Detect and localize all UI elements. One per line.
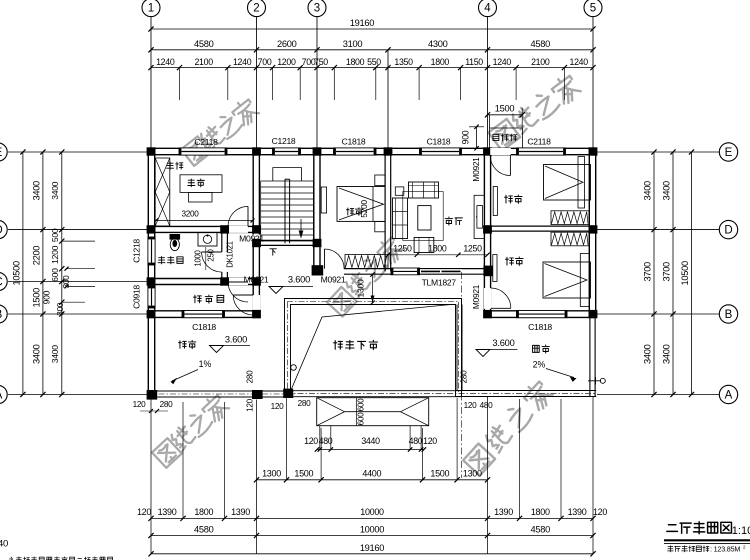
watermark A [180,97,260,168]
bathroom label [158,256,165,263]
bottom dim row 120 1390 1800 1390 10000 mirrored [151,517,593,519]
svg-text:1150: 1150 [465,57,483,67]
column courtyard SW [283,389,293,398]
svg-text:5200: 5200 [359,200,369,218]
svg-text:3.600: 3.600 [492,338,514,348]
svg-text:M0921: M0921 [239,234,264,244]
window C2118 study top [179,148,227,155]
nightstand bedroom2 south [375,222,385,232]
bottom left note (cut) [9,557,14,560]
canopy label [493,134,499,140]
bottom dim row 19160 [151,553,593,555]
right dimension 10500 [691,152,693,395]
terrace label [533,345,540,352]
desk study [180,175,222,193]
svg-text:3400: 3400 [662,344,672,364]
left dimension chain 3400 2200 1500 3400 [42,152,44,395]
svg-text:3700: 3700 [643,262,653,282]
svg-text:3400: 3400 [50,345,60,363]
svg-text:500: 500 [50,228,60,242]
stair void railing [273,168,302,181]
exterior wall left [147,148,149,397]
svg-text:DK1021: DK1021 [226,241,235,267]
svg-text:4580: 4580 [531,524,551,534]
svg-text:1200: 1200 [50,245,60,263]
svg-text:C2118: C2118 [194,137,218,147]
svg-text:3.600: 3.600 [225,335,247,345]
rug living room [403,192,443,241]
tv cabinet [474,195,484,238]
svg-text:M0921: M0921 [244,275,269,285]
title second floor plan [667,525,678,532]
svg-text:1300: 1300 [463,468,482,478]
svg-text:1200: 1200 [277,57,296,67]
svg-text:4400: 4400 [362,468,381,478]
door M0921 entry under canopy [490,148,511,155]
svg-text:: 123.85M: : 123.85M [710,545,740,554]
svg-text:3100: 3100 [343,39,363,49]
svg-text:4300: 4300 [428,39,448,49]
tv set [477,206,483,229]
stair center rail [284,179,286,243]
svg-text:B: B [725,309,733,321]
wall B right wing [484,310,596,312]
axis row lines right [597,151,720,153]
stair treads [261,180,314,182]
left dimension chain 10500 [22,152,24,395]
door M0921 study [247,206,249,226]
svg-text:1800: 1800 [194,507,213,517]
wall axis3 [313,148,315,270]
svg-text:1390: 1390 [494,507,513,517]
svg-text:1500: 1500 [32,288,42,308]
storage label [194,295,202,303]
terrace parapet right [589,318,591,397]
courtyard outer wall [285,299,462,397]
svg-text:3.600: 3.600 [288,275,310,285]
svg-text:300: 300 [56,302,65,316]
svg-text:1240: 1240 [233,57,252,67]
wall axis2 [252,148,254,317]
grid bubbles right E D B A [719,143,737,161]
right dimension chain 3400 3700 3400 col1 [653,152,655,395]
grid bubbles top 1-5 [142,0,160,17]
svg-text:19160: 19160 [360,543,384,553]
bedroom2 label vertical [346,208,353,215]
axis line 3a top [387,50,389,148]
closet by stair [321,187,326,213]
svg-text:19160: 19160 [350,18,374,28]
column axis3 south [312,265,324,275]
corner table [395,187,404,195]
chair study [189,192,213,202]
svg-text:1500: 1500 [495,104,515,114]
courtyard centerlines [287,302,289,394]
svg-text:C2118: C2118 [527,137,551,147]
svg-text:600: 600 [357,412,366,426]
svg-text:1800: 1800 [531,507,550,517]
wall axis3a [384,148,386,271]
wall C left wing [148,278,260,280]
svg-text:3400: 3400 [662,181,672,201]
svg-text:TLM1827: TLM1827 [422,278,457,288]
exterior wall top [148,147,596,149]
svg-text:280: 280 [246,370,255,384]
terrace left wall [456,305,458,391]
svg-text:4580: 4580 [194,39,214,49]
wall D left wing [148,225,260,227]
courtyard bottom wall [285,390,462,392]
svg-text:1250: 1250 [463,244,482,254]
wall D right wing [484,225,596,227]
watermark C [326,235,405,318]
svg-text:1250: 1250 [393,244,412,254]
toilet [170,238,179,250]
svg-text:3200: 3200 [181,210,199,219]
column pavilion axis2 [252,390,263,399]
door DK1021 bathroom [202,251,222,253]
door M0921 pavilion [233,294,253,296]
svg-text:3400: 3400 [643,344,653,364]
svg-text:700: 700 [258,57,272,67]
dimension total 19160 top [151,28,593,30]
window C1818 storage [182,311,225,318]
left connector stubs [62,240,95,242]
svg-text:E: E [0,147,3,159]
svg-text:B: B [0,309,3,321]
svg-text:C1818: C1818 [427,137,451,147]
svg-text:4: 4 [484,3,491,15]
svg-text:1240: 1240 [156,57,175,67]
pavilion bottom wall [148,390,294,392]
svg-text:1800: 1800 [346,57,365,67]
svg-text:480: 480 [480,401,494,410]
svg-text:1390: 1390 [568,507,587,517]
svg-text:2600: 2600 [277,39,297,49]
stair direction arrow [300,219,302,238]
wall axis4 [483,148,485,317]
wardrobe bedroom4 [551,232,589,246]
dimension 1500 canopy [488,114,523,116]
axis extension lines top [150,17,152,148]
svg-text:E: E [725,147,733,159]
svg-text:120: 120 [304,436,318,446]
svg-text:1300: 1300 [262,468,281,478]
svg-text:1240: 1240 [493,57,512,67]
svg-text:C1818: C1818 [192,322,216,332]
svg-text:120: 120 [133,400,147,409]
courtyard dim row 1300 1500 4400 1500 1300 [257,479,488,481]
svg-text:1:10: 1:10 [732,525,750,537]
columns grid [147,147,156,155]
bed bedroom2 [337,187,385,222]
svg-text:3: 3 [314,3,320,15]
svg-text:900: 900 [461,130,471,144]
svg-text:2%: 2% [533,360,546,370]
svg-text:120: 120 [593,507,607,517]
window C1818 bedroom4 [517,311,568,318]
svg-text:120: 120 [464,401,478,410]
level 3.600 pavilion [210,346,224,353]
coffee table [418,206,431,230]
nightstand bedroom2 north [375,175,385,186]
window TLM left segment [391,268,420,270]
axis row lines left [8,151,148,153]
wardrobe bedroom3 [551,211,589,225]
door storage [228,281,248,283]
svg-text:40: 40 [0,539,8,550]
svg-text:D: D [724,225,732,237]
svg-text:2200: 2200 [32,246,42,266]
svg-text:1390: 1390 [231,507,250,517]
terrace drain [588,380,601,382]
svg-text:550: 550 [367,57,381,67]
bed bedroom4 [543,262,591,298]
svg-text:C1818: C1818 [528,322,552,332]
svg-text:1390: 1390 [158,507,177,517]
dim 1300 vertical at courtyard [372,275,374,303]
sliding door TLM1827 [420,268,463,270]
svg-text:2: 2 [253,3,259,15]
porch dim 600 600 [356,398,358,426]
cabinet bedroom3 wall [493,187,497,216]
svg-text:280: 280 [298,399,312,408]
svg-text:M0921: M0921 [471,157,481,182]
svg-text:280: 280 [460,370,469,384]
extension drops below top dims [179,68,181,100]
porch dim row 120 480 3440 480 120 [317,449,424,451]
exterior wall right [588,148,590,317]
pavilion label [179,341,187,349]
bookcase label [167,162,174,169]
window C2118 bedroom3 top [517,148,566,155]
svg-text:1: 1 [148,3,154,15]
svg-text:480: 480 [409,436,423,446]
canopy slab [490,115,523,148]
right dimension chain col2 [672,152,674,395]
svg-text:M0921: M0921 [471,284,481,309]
svg-text:3700: 3700 [662,262,672,282]
svg-text:120: 120 [137,507,151,517]
svg-text:C1218: C1218 [132,239,142,263]
level 3.600 terrace [476,350,490,357]
svg-text:C0918: C0918 [132,285,142,309]
left dimension chain detail [61,152,63,395]
window C1818 living top [420,148,462,155]
svg-text:10500: 10500 [680,261,690,285]
window C1818 bedroom2 top [334,148,377,155]
courtyard void label [334,341,343,350]
svg-text:3440: 3440 [361,436,380,446]
svg-text:C1218: C1218 [272,136,296,146]
washbasin [198,233,217,247]
svg-text:10000: 10000 [360,507,384,517]
svg-text:10500: 10500 [12,261,22,285]
svg-text:2100: 2100 [194,57,213,67]
courtyard roof slant line [291,305,451,391]
svg-text:4580: 4580 [194,524,214,534]
watermark B [488,73,583,152]
level 3.600 landing [269,287,283,294]
door M0921 bedroom4 [491,307,511,309]
living room label [445,217,452,225]
door M0921 bedroom2 [324,249,326,269]
svg-text:600: 600 [50,268,60,282]
column axis4 south [483,266,492,277]
dimension row top detail [151,67,593,69]
svg-text:A: A [0,390,3,402]
wardrobe bedroom2 [345,255,388,269]
stairwell bottom wall [253,239,322,241]
svg-text:D: D [0,225,3,237]
svg-text:120: 120 [246,398,255,412]
watermark E [462,379,555,477]
grid bubbles left (cut) E D C B A [0,143,7,161]
svg-text:120: 120 [423,436,437,446]
wall TLM to axis4 [462,268,488,270]
svg-text:600: 600 [357,398,366,412]
svg-text:1800: 1800 [428,244,447,254]
wall B left wing [148,310,260,312]
wall bedroom2 south / TLM wall [344,268,391,270]
svg-text:3400: 3400 [32,181,42,201]
window C0918 left wall [148,286,155,308]
bottom extension lines [150,400,152,554]
sofa main [393,198,408,239]
left mini dim 300 [67,268,96,270]
svg-text:1000: 1000 [194,249,203,266]
svg-text:5: 5 [590,3,596,15]
watermark D [151,393,230,469]
svg-text:1500: 1500 [294,468,313,478]
bathroom wall vertical [221,229,223,284]
bottom dim row 4580 10000 4580 [151,535,593,537]
svg-text:1%: 1% [199,359,212,369]
svg-text:C1818: C1818 [342,137,366,147]
svg-text:900: 900 [41,290,51,304]
title area note [668,546,674,552]
pavilion railing post circle [291,365,297,371]
window C1218 left wall [148,237,155,265]
bed bedroom3 [544,165,591,201]
cabinet bedroom4 wall [493,255,497,282]
svg-text:1240: 1240 [570,57,589,67]
svg-text:10000: 10000 [360,524,384,534]
svg-text:A: A [725,390,733,402]
svg-text:C: C [0,277,3,289]
axis dash-dot terrace left [461,272,463,478]
bedroom4 label [506,257,514,265]
svg-text:3400: 3400 [50,181,60,199]
svg-text:1350: 1350 [394,57,413,67]
dimension row 4580 2600 3100 4300 4580 [151,49,593,51]
svg-text:2100: 2100 [531,57,550,67]
svg-text:280: 280 [160,400,174,409]
terrace bottom wall [455,390,596,392]
svg-text:750: 750 [314,57,328,67]
armchair [414,238,434,253]
loveseat [409,182,439,198]
column pavilion SW [147,390,158,400]
svg-text:250: 250 [207,248,216,261]
bedroom3 label [505,195,513,203]
svg-text:M0921: M0921 [321,275,346,285]
bookcase study [155,158,170,226]
svg-text:4580: 4580 [531,39,551,49]
svg-text:1300: 1300 [356,279,366,297]
svg-text:120: 120 [271,402,285,411]
svg-text:1800: 1800 [431,57,450,67]
study label [188,179,195,187]
porch roof below courtyard [317,398,429,426]
window C1218 stair top [273,148,301,155]
stair down label [270,249,277,255]
dimension 900 canopy [476,127,478,149]
svg-text:1500: 1500 [430,468,449,478]
svg-text:3400: 3400 [32,344,42,364]
svg-text:3400: 3400 [643,181,653,201]
